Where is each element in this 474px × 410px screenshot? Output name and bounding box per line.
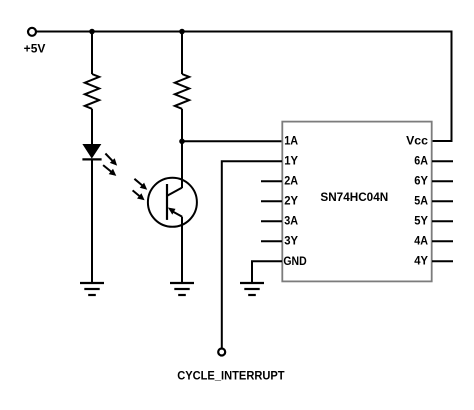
ground (LED branch) (80, 283, 104, 295)
wire R2 to collector node (181, 109, 183, 188)
stub pin 4A (432, 240, 453, 242)
svg-text:2A: 2A (284, 174, 298, 188)
terminal +5V (28, 28, 36, 36)
stub pin 5A (432, 200, 453, 202)
svg-text:4A: 4A (414, 234, 428, 248)
ground (IC GND) (240, 283, 264, 295)
phototransistor Q1 (148, 178, 197, 227)
stub pin 3Y (261, 240, 282, 242)
svg-text:6Y: 6Y (414, 174, 428, 188)
svg-text:3A: 3A (284, 214, 298, 228)
svg-text:1Y: 1Y (284, 154, 298, 168)
resistor R2 (175, 74, 189, 109)
LED D1 (82, 144, 101, 159)
wire GND pin to ground (252, 261, 282, 283)
stub pin 6A (432, 160, 453, 162)
wire R1 to LED (91, 109, 93, 145)
svg-text:5A: 5A (414, 194, 428, 208)
svg-text:Vcc: Vcc (406, 134, 428, 148)
wire node to pin 1A (182, 140, 282, 142)
svg-text:3Y: 3Y (284, 234, 298, 248)
stub pin 2A (261, 180, 282, 182)
light arrow into Q1 (lower) (133, 190, 145, 200)
svg-text:2Y: 2Y (284, 194, 298, 208)
svg-text:+5V: +5V (24, 42, 46, 56)
LED light arrow 1 (105, 154, 117, 166)
wire 1Y to CYCLE_INTERRUPT (222, 161, 282, 348)
wire rail to R2 (181, 32, 183, 75)
junction dot node 1A (179, 139, 185, 145)
stub pin 2Y (261, 200, 282, 202)
LED light arrow 2 (103, 165, 116, 176)
wire LED to ground (91, 159, 93, 283)
svg-text:SN74HC04N: SN74HC04N (320, 190, 388, 204)
IC U1 body (282, 122, 431, 282)
junction dot rail/R1 (89, 29, 95, 35)
terminal CYCLE_INTERRUPT (218, 349, 225, 356)
svg-text:4Y: 4Y (414, 254, 428, 268)
stub pin 6Y (432, 180, 453, 182)
stub pin 3A (261, 220, 282, 222)
svg-text:5Y: 5Y (414, 214, 428, 228)
light arrow into Q1 (upper) (134, 179, 147, 190)
stub pin 5Y (432, 220, 453, 222)
wire emitter to ground (181, 217, 183, 283)
svg-text:6A: 6A (414, 154, 428, 168)
svg-text:CYCLE_INTERRUPT: CYCLE_INTERRUPT (177, 368, 285, 382)
resistor R1 (85, 74, 99, 109)
wire right drop to Vcc (432, 31, 452, 142)
svg-text:1A: 1A (284, 134, 298, 148)
wire rail to R1 (91, 32, 93, 75)
junction dot rail/R2 (179, 29, 185, 35)
ground (Q1 branch) (170, 283, 194, 295)
stub pin 4Y (432, 260, 453, 262)
wire top rail (36, 31, 452, 33)
svg-text:GND: GND (283, 254, 307, 268)
